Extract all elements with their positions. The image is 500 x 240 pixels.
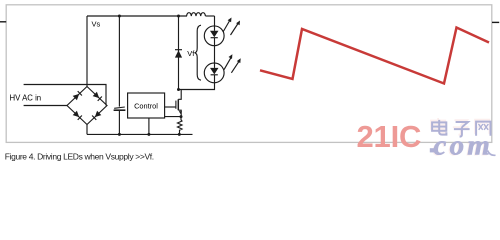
svg-text:Vf: Vf: [187, 49, 195, 58]
svg-text:com: com: [434, 129, 494, 161]
wire control gate: [165, 106, 176, 108]
bridge diode D4 bottom-right: [92, 111, 101, 120]
transistor Q1 MOSFET: [176, 99, 182, 114]
LED LED2: [204, 63, 224, 83]
wire control sense: [165, 116, 182, 118]
svg-text:Vs: Vs: [92, 20, 101, 29]
LED LED1: [204, 26, 224, 46]
wire AC input bottom: [24, 105, 67, 107]
right tick mark: [492, 21, 499, 23]
junction node control bottom: [147, 133, 150, 136]
junction node resistor bottom: [178, 133, 181, 136]
wire bottom rail: [87, 133, 193, 135]
wire MOSFET drain: [178, 90, 181, 100]
watermark red ghost 电子网 (faint, offset up-left): [431, 118, 489, 135]
wire AC input top: [24, 85, 106, 106]
wire bridge negative drop: [86, 125, 88, 135]
LED1 emission arrows: [223, 18, 240, 36]
wire top rail: [87, 15, 187, 17]
inductor L1: [187, 13, 206, 16]
wire MOSFET source: [178, 110, 181, 116]
watermark m tail swash: [488, 151, 496, 156]
watermark dot of .com (lavender): [430, 148, 434, 152]
junction node drain: [177, 88, 180, 91]
capacitor C1: [114, 107, 126, 110]
wire top rail after inductor: [205, 15, 214, 17]
svg-text:Control: Control: [134, 102, 158, 111]
junction node diode top: [177, 15, 180, 18]
junction node Vs: [118, 15, 121, 18]
bridge rectifier diamond: [67, 87, 107, 125]
svg-text:21IC: 21IC: [357, 119, 422, 154]
brace for Vf across LEDs: [195, 25, 201, 80]
bridge diode D2 top-right: [93, 92, 102, 101]
left tick mark: [0, 21, 6, 23]
LED2 emission arrows: [224, 54, 241, 73]
wire LED1 to LED2: [214, 46, 216, 63]
freewheel diode D5: [175, 50, 182, 58]
bridge diode D1 top-left: [73, 91, 82, 100]
figure border frame (gray): [6, 5, 492, 143]
wire capacitor branch top: [118, 16, 120, 107]
wire bridge positive riser: [86, 16, 88, 87]
bridge diode D3 bottom-left: [73, 111, 82, 120]
wire capacitor branch bottom: [118, 111, 120, 135]
junction node capacitor bottom: [118, 133, 121, 136]
watermark 电子网 (lavender): [432, 120, 490, 137]
wire LED return: [179, 83, 215, 90]
svg-text:Figure 4. Driving LEDs when Vs: Figure 4. Driving LEDs when Vsupply >>Vf…: [5, 152, 154, 162]
svg-text:HV AC in: HV AC in: [10, 94, 42, 103]
wire LED string drop: [214, 16, 216, 26]
freewheel diode line: [178, 16, 180, 90]
control block U1: [128, 93, 165, 118]
wire control ground pin: [148, 118, 150, 134]
resistor R1: [178, 117, 183, 135]
waveform inductor current (red): [260, 28, 489, 84]
junction node sense: [180, 115, 183, 118]
